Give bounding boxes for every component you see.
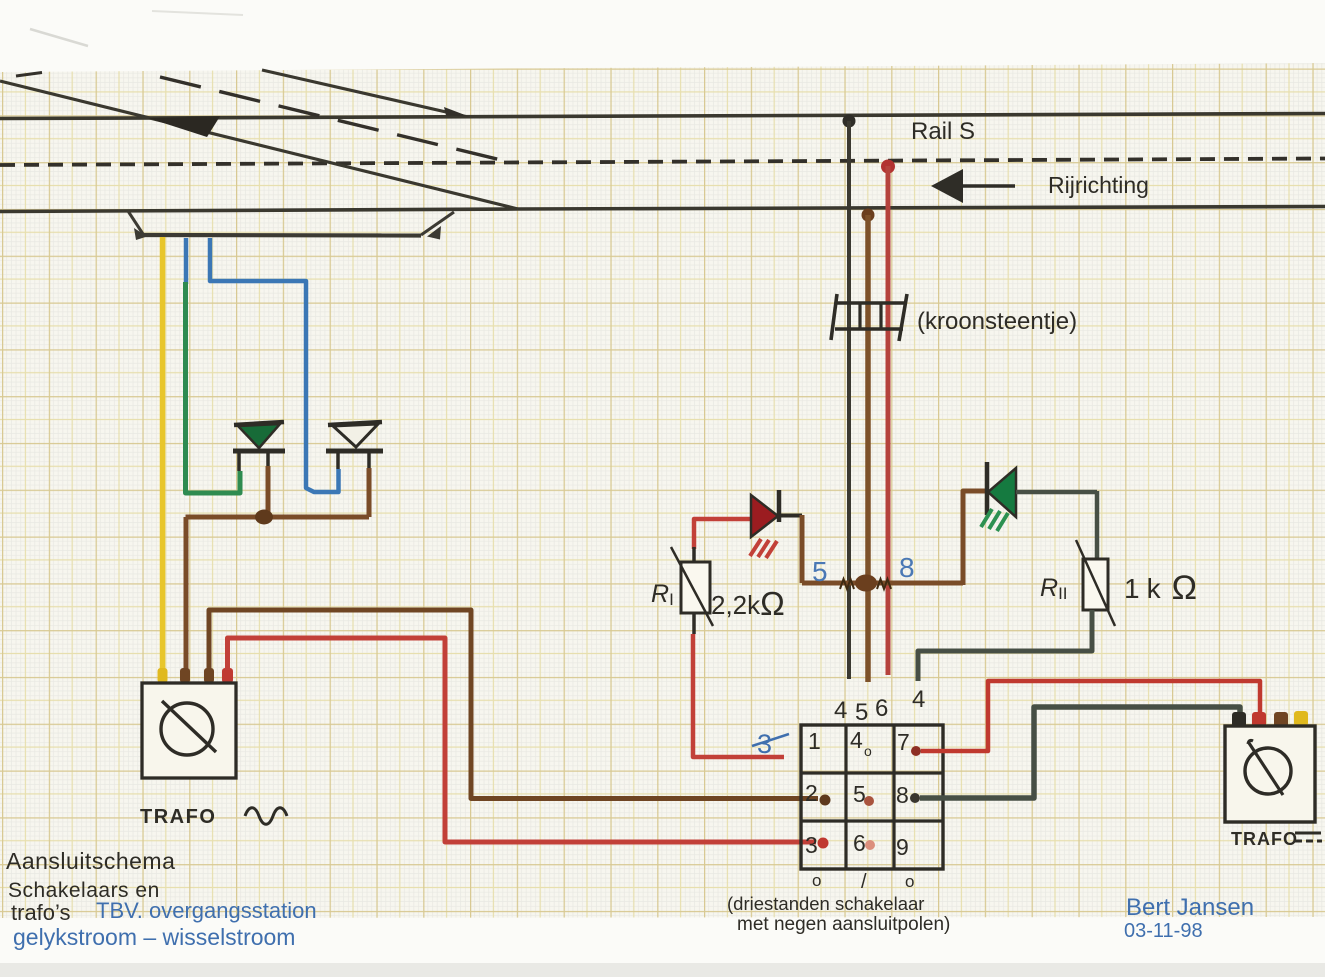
wire yellow: bracket to transformer T1 xyxy=(160,237,166,671)
label TRAFO dc xyxy=(1231,829,1322,849)
wire grey D2 to RII xyxy=(1016,491,1097,559)
wire red switch pin 7 to T2 xyxy=(921,681,1260,751)
turnout branch rail 2 xyxy=(262,70,469,117)
green colour marks D2 xyxy=(981,509,1008,531)
svg-text:7: 7 xyxy=(897,729,910,755)
wire brown lamp L2 return xyxy=(367,468,372,517)
svg-text:Bert Jansen: Bert Jansen xyxy=(1126,894,1254,921)
wire red from centerline xyxy=(886,166,891,675)
wire green to lamp L1 xyxy=(186,282,241,493)
svg-text:trafo’s: trafo’s xyxy=(11,900,71,925)
wire grey RII to switch pin 4 xyxy=(918,610,1092,681)
svg-text:4: 4 xyxy=(834,697,847,724)
crossing marks on bus xyxy=(840,579,891,589)
wire brown bus to LED D2 xyxy=(963,491,987,585)
contact dot pin 8 xyxy=(910,793,920,803)
svg-text:4: 4 xyxy=(850,727,863,753)
turnout branch rail 1 xyxy=(0,81,518,209)
svg-text:03-11-98: 03-11-98 xyxy=(1124,920,1203,942)
wire red RI to LED D1 xyxy=(694,519,750,549)
svg-text:5: 5 xyxy=(855,699,868,726)
LED D2 (green) xyxy=(987,462,1016,517)
wire black from rail S xyxy=(847,121,851,679)
svg-text:6: 6 xyxy=(875,695,888,722)
signal lamp L1 (green) xyxy=(233,422,285,471)
transformer T2 terminals xyxy=(1232,711,1308,727)
arrow rijrichting xyxy=(931,169,1015,203)
brown bus wire xyxy=(802,581,963,586)
svg-text:3: 3 xyxy=(805,832,818,858)
svg-text:met negen aansluitpolen): met negen aansluitpolen) xyxy=(737,914,950,935)
svg-text:TRAFO: TRAFO xyxy=(140,806,216,828)
resistor RI xyxy=(671,547,713,634)
caption driestanden schakelaar xyxy=(727,893,950,935)
signal lamp L2 (white) xyxy=(326,422,383,470)
svg-text:TRAFO: TRAFO xyxy=(1231,829,1298,849)
contact dot pin 7 xyxy=(911,746,921,756)
svg-text:o: o xyxy=(864,743,872,759)
node on centerline xyxy=(881,160,895,174)
LED D1 (red) xyxy=(751,490,802,537)
svg-text:6: 6 xyxy=(853,830,866,856)
svg-text:5: 5 xyxy=(812,556,828,587)
turnout branch centerline (dashed) xyxy=(16,73,505,162)
rail bottom xyxy=(0,207,1325,212)
svg-text:1kΩ: 1kΩ xyxy=(1124,569,1204,607)
pickup bracket under track xyxy=(128,211,454,240)
wire brown D1 to junction bus xyxy=(800,515,805,583)
wire brown lamp L1 return xyxy=(266,466,271,514)
contact dot pin 6 xyxy=(865,840,875,850)
node on bottom rail xyxy=(862,209,875,222)
svg-text:8: 8 xyxy=(899,552,915,583)
wire brown bus to T1 xyxy=(186,517,370,671)
title line 3 xyxy=(11,898,317,925)
wire blue upper of lamp L1 xyxy=(184,238,189,284)
transformer T2 (DC) xyxy=(1225,726,1315,822)
transformer T1 (AC) xyxy=(142,683,236,778)
svg-text:8: 8 xyxy=(896,782,909,808)
svg-text:9: 9 xyxy=(896,834,909,860)
label 3 crossed out (blue) xyxy=(752,729,789,759)
svg-text:o: o xyxy=(812,871,821,890)
svg-text:5: 5 xyxy=(853,781,866,807)
svg-text:Aansluitschema: Aansluitschema xyxy=(6,848,175,874)
svg-text:(kroonsteentje): (kroonsteentje) xyxy=(917,308,1077,335)
svg-text:Rijrichting: Rijrichting xyxy=(1048,172,1149,198)
contact dot pin 5 xyxy=(864,796,874,806)
svg-text:TBV. overgangsstation: TBV. overgangsstation xyxy=(96,898,317,923)
contact dot pin 3 (red) xyxy=(818,838,829,849)
wire red RI down to switch area xyxy=(693,634,784,757)
red colour marks D1 xyxy=(750,539,777,558)
svg-text:4: 4 xyxy=(912,686,925,713)
wire grey switch pin 8 to T2 xyxy=(920,707,1240,798)
svg-text:o: o xyxy=(905,872,914,891)
junction dot on bus xyxy=(855,575,877,592)
wire blue to lamp L2 xyxy=(210,238,339,492)
svg-text:Rail S: Rail S xyxy=(911,118,975,145)
svg-text:gelykstroom – wisselstroom: gelykstroom – wisselstroom xyxy=(13,924,295,950)
junction dot brown xyxy=(255,510,273,525)
wire red T1 to switch pin 3 xyxy=(228,638,817,842)
svg-text:/: / xyxy=(861,871,867,893)
switch S1 (three-position, nine poles) xyxy=(801,725,943,869)
wire brown from bottom rail xyxy=(865,215,871,682)
transformer T1 terminals xyxy=(158,668,234,683)
svg-text:2,2kΩ: 2,2kΩ xyxy=(711,585,785,622)
svg-text:2: 2 xyxy=(805,780,818,806)
svg-text:(driestanden schakelaar: (driestanden schakelaar xyxy=(727,893,924,914)
wire brown T1 to switch pin 2 xyxy=(209,610,818,799)
node on rail S xyxy=(843,115,856,128)
track centerline (dashed) xyxy=(0,159,1325,166)
resistor RII xyxy=(1076,540,1115,626)
label TRAFO ~ xyxy=(140,806,287,828)
pin 4 xyxy=(850,727,872,759)
terminal block (kroonsteentje) xyxy=(831,294,907,341)
contact dot pin 2 (brown) xyxy=(820,795,831,806)
frog (filled wedge) xyxy=(148,116,220,137)
svg-text:1: 1 xyxy=(808,728,821,754)
rail top (rail S) xyxy=(0,114,1325,119)
